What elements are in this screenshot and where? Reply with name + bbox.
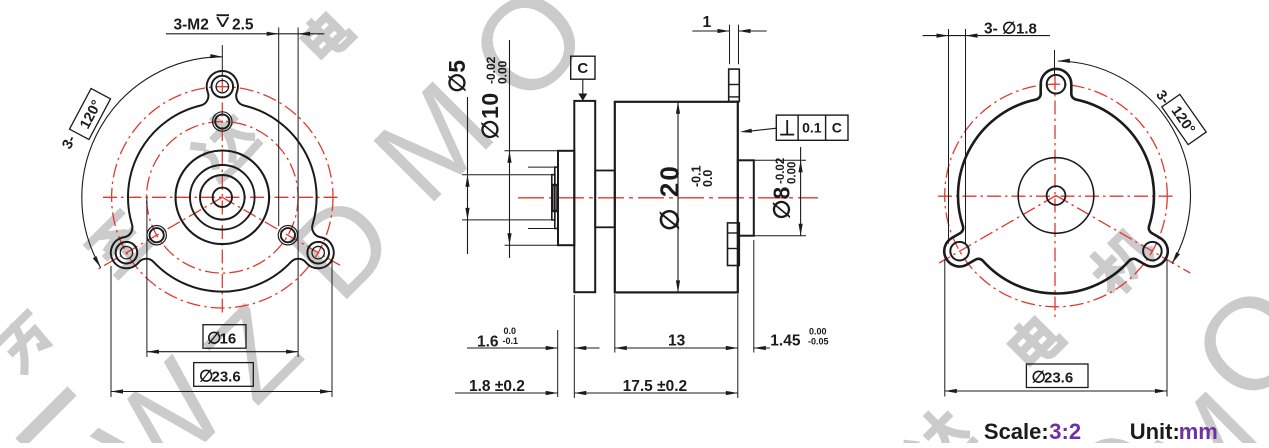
svg-text:∅10: ∅10 <box>477 92 503 139</box>
svg-text:Unit:: Unit: <box>1130 419 1180 443</box>
svg-text:3:2: 3:2 <box>1049 419 1081 443</box>
svg-text:16: 16 <box>220 330 237 347</box>
svg-text:C: C <box>577 60 588 77</box>
svg-text:mm: mm <box>1179 419 1218 443</box>
svg-text:0.1: 0.1 <box>802 120 822 136</box>
svg-text:∅ 20: ∅ 20 <box>655 164 685 231</box>
svg-text:∅8: ∅8 <box>769 186 795 219</box>
svg-text:∅: ∅ <box>1002 20 1016 38</box>
svg-text:C: C <box>832 120 842 136</box>
svg-text:1.8 ±0.2: 1.8 ±0.2 <box>469 378 525 395</box>
svg-text:0.0: 0.0 <box>504 326 517 336</box>
svg-text:3-: 3- <box>984 21 998 38</box>
svg-text:1: 1 <box>703 14 712 31</box>
svg-text:2.5: 2.5 <box>232 17 254 34</box>
svg-text:0.00: 0.00 <box>496 60 510 84</box>
svg-text:0.00: 0.00 <box>809 327 827 337</box>
svg-text:13: 13 <box>668 332 686 349</box>
svg-text:23.6: 23.6 <box>1044 370 1073 387</box>
svg-text:23.6: 23.6 <box>212 368 241 385</box>
svg-text:-0.05: -0.05 <box>808 337 829 347</box>
svg-text:3-M2: 3-M2 <box>174 17 209 34</box>
svg-text:1.6: 1.6 <box>477 333 499 350</box>
svg-text:∅5: ∅5 <box>444 60 470 93</box>
svg-text:17.5 ±0.2: 17.5 ±0.2 <box>623 378 688 395</box>
svg-text:0.00: 0.00 <box>787 162 799 184</box>
svg-text:1.8: 1.8 <box>1016 21 1037 38</box>
svg-text:1.45: 1.45 <box>770 332 801 349</box>
svg-text:-0.1: -0.1 <box>503 336 519 346</box>
svg-text:0.0: 0.0 <box>701 170 715 187</box>
svg-text:-0.02: -0.02 <box>775 158 787 184</box>
svg-text:Scale:: Scale: <box>984 419 1049 443</box>
